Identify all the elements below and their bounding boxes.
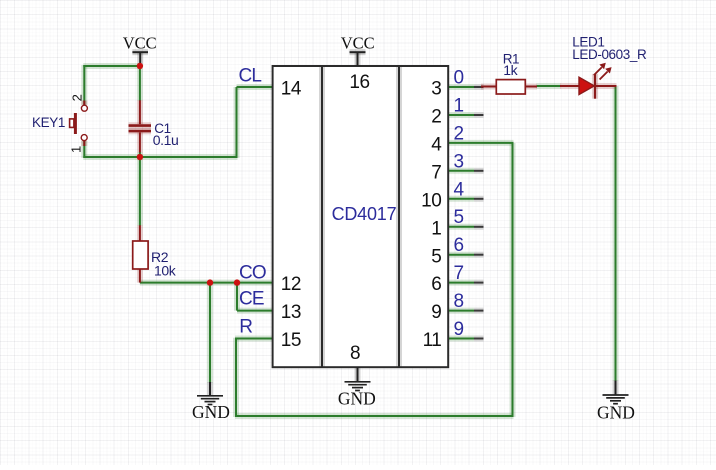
svg-text:KEY1: KEY1	[32, 115, 65, 130]
svg-text:7: 7	[431, 162, 441, 183]
svg-text:15: 15	[281, 330, 301, 351]
svg-text:11: 11	[423, 330, 442, 351]
svg-text:10k: 10k	[154, 262, 177, 278]
svg-text:CO: CO	[239, 262, 266, 283]
svg-text:5: 5	[431, 246, 441, 267]
svg-text:1k: 1k	[503, 62, 518, 78]
svg-text:13: 13	[281, 302, 301, 323]
svg-text:8: 8	[454, 291, 465, 312]
svg-text:12: 12	[281, 274, 301, 295]
svg-text:GND: GND	[338, 389, 376, 409]
svg-text:VCC: VCC	[123, 34, 157, 53]
svg-text:1: 1	[69, 146, 84, 153]
svg-text:5: 5	[454, 207, 465, 228]
svg-text:CD4017: CD4017	[332, 204, 397, 224]
svg-text:LED-0603_R: LED-0603_R	[572, 47, 647, 62]
svg-text:4: 4	[454, 179, 465, 200]
svg-text:3: 3	[431, 79, 441, 100]
svg-text:2: 2	[431, 107, 441, 128]
svg-text:6: 6	[454, 235, 465, 256]
svg-text:6: 6	[431, 274, 441, 295]
svg-text:GND: GND	[192, 402, 230, 422]
svg-text:VCC: VCC	[341, 34, 375, 53]
svg-text:1: 1	[431, 218, 441, 239]
svg-text:CE: CE	[239, 289, 264, 310]
svg-text:3: 3	[454, 151, 465, 172]
svg-text:7: 7	[454, 263, 465, 284]
svg-text:9: 9	[454, 319, 465, 340]
svg-text:CL: CL	[239, 65, 262, 86]
svg-text:9: 9	[431, 302, 441, 323]
svg-text:1: 1	[454, 96, 465, 117]
svg-text:10: 10	[421, 190, 441, 211]
svg-text:GND: GND	[597, 402, 635, 422]
svg-text:R: R	[239, 317, 252, 338]
svg-text:16: 16	[349, 72, 369, 93]
svg-text:8: 8	[350, 343, 361, 364]
svg-text:4: 4	[431, 135, 442, 156]
svg-text:14: 14	[281, 79, 302, 100]
svg-text:0.1u: 0.1u	[153, 132, 179, 148]
svg-text:0: 0	[454, 68, 465, 89]
svg-text:2: 2	[70, 94, 85, 101]
svg-text:2: 2	[454, 123, 465, 144]
